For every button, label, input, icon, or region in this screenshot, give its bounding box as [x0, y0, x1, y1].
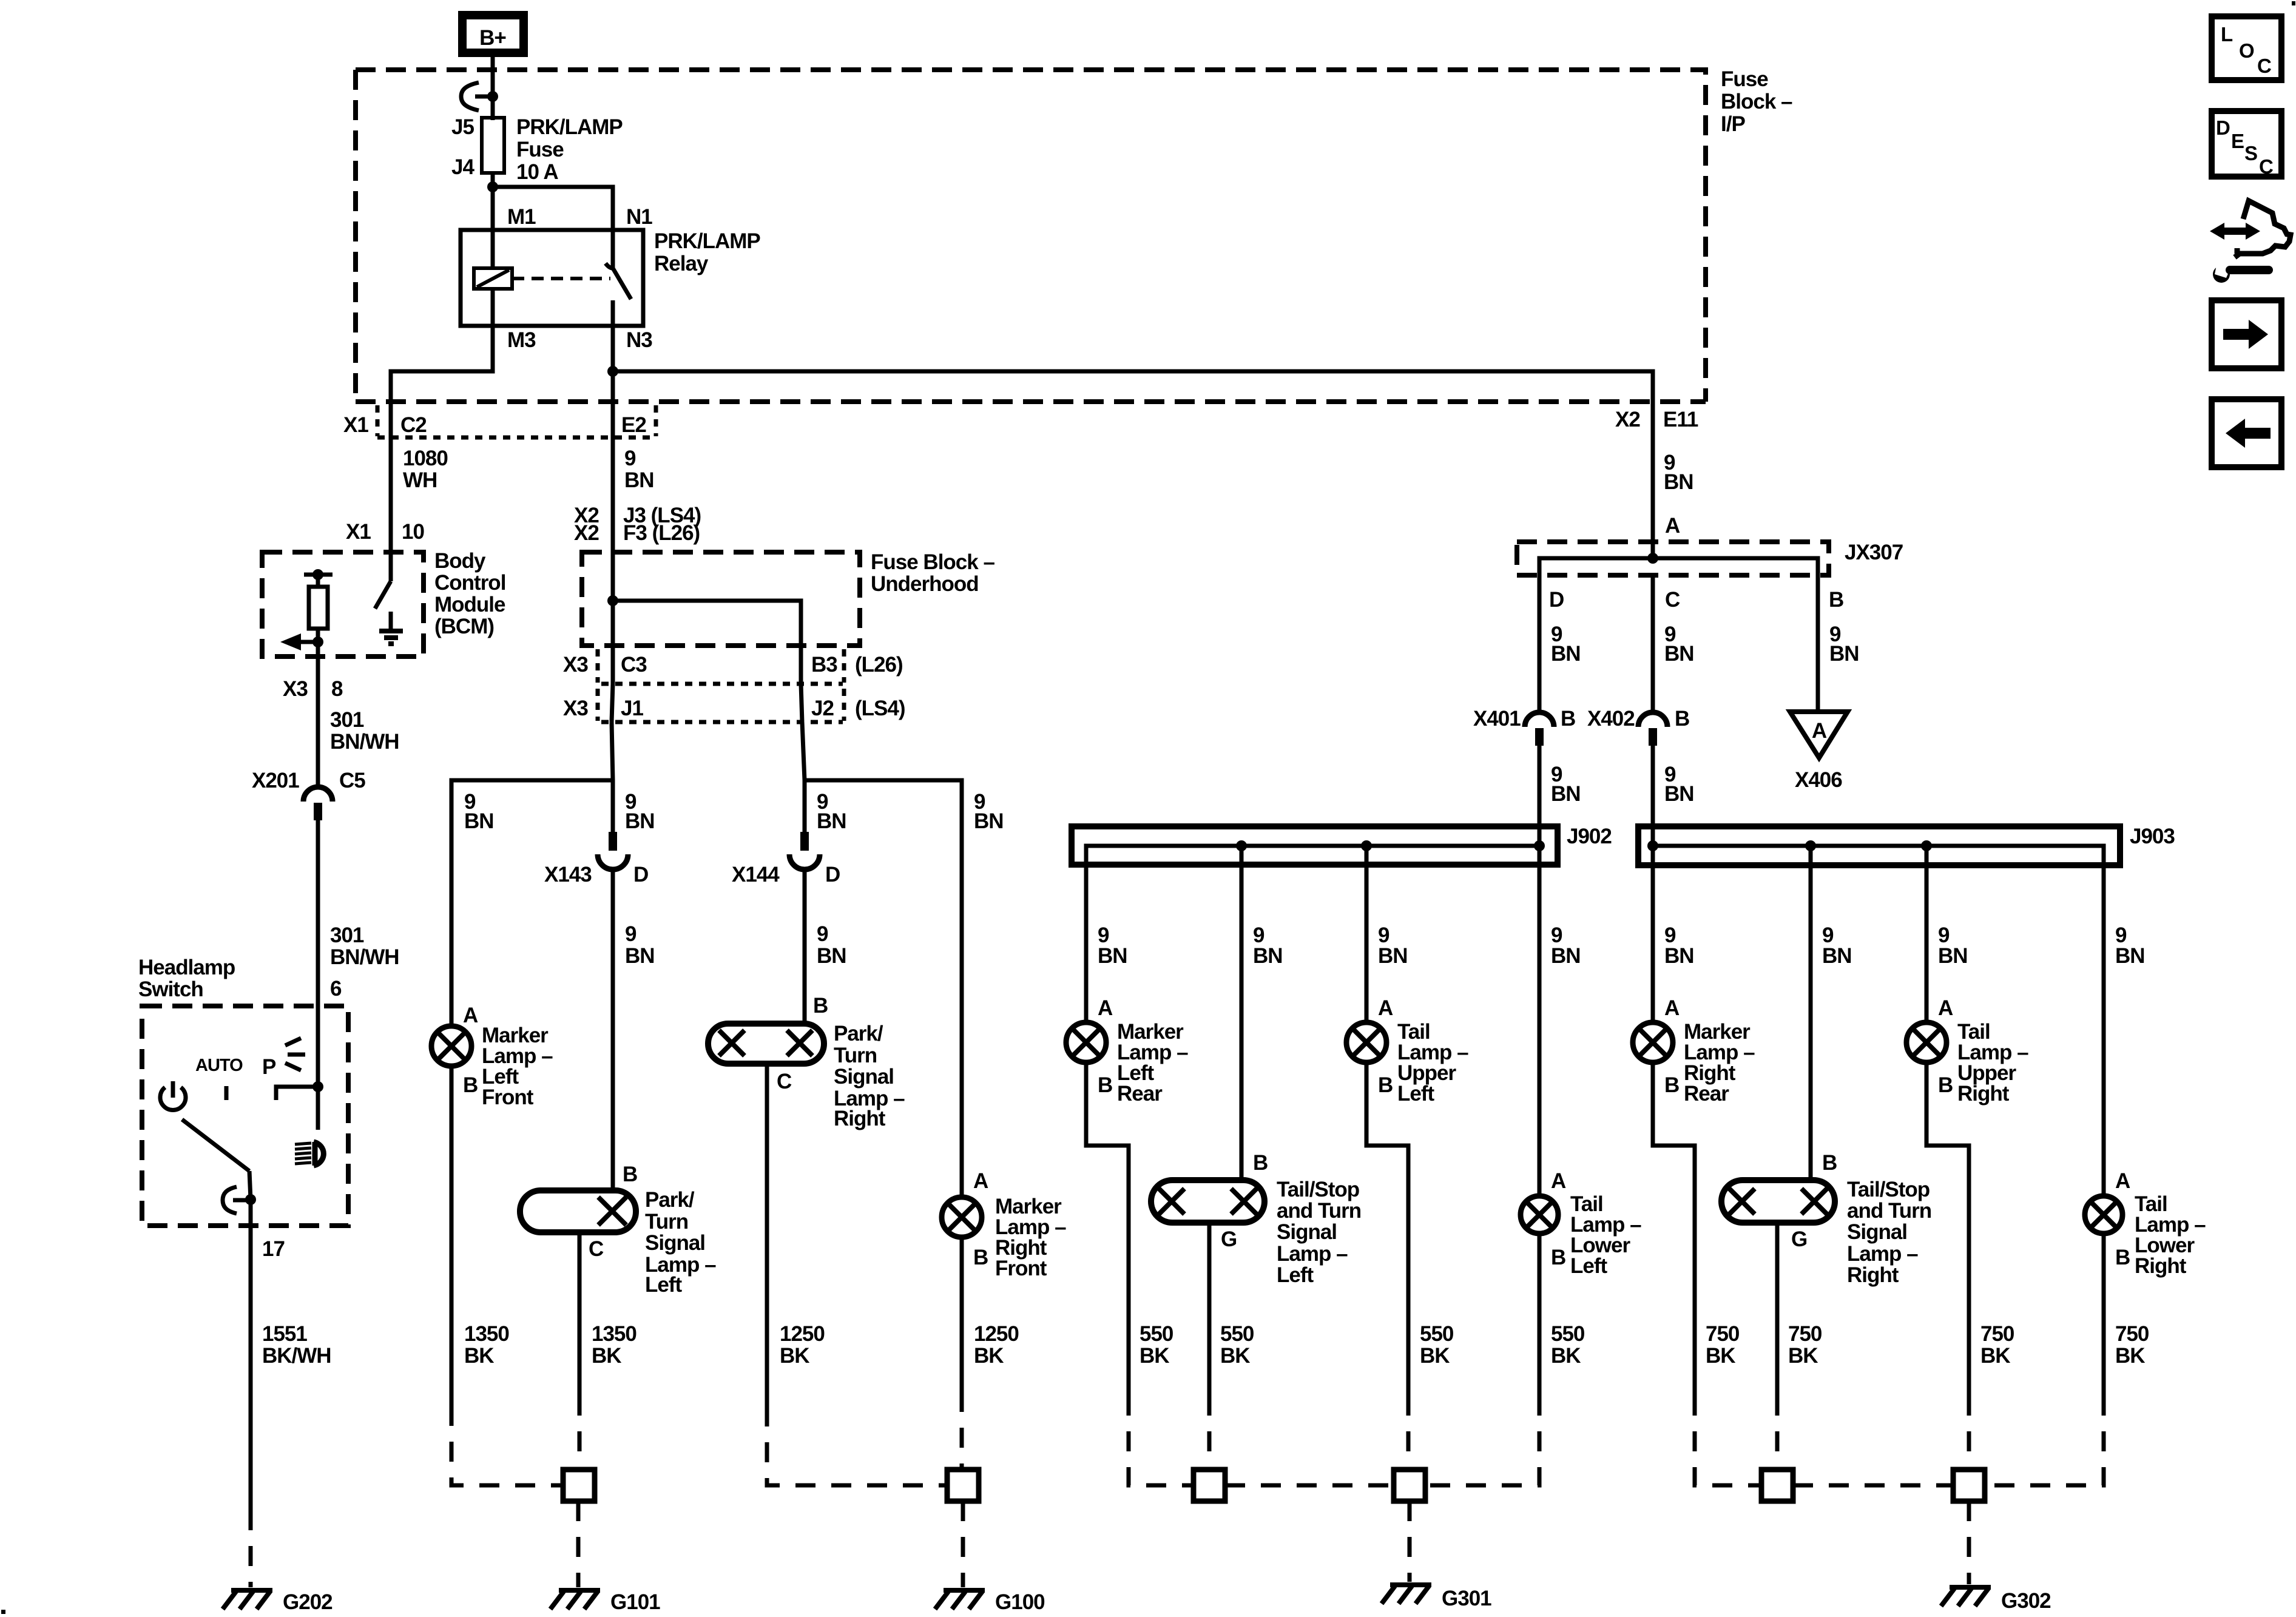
svg-text:BK: BK [1420, 1344, 1450, 1368]
wire label 1250 BK park/turn right [780, 1322, 825, 1368]
svg-text:Underhood: Underhood [871, 572, 979, 596]
pin label J1 [621, 697, 643, 720]
wire J902 feed to tail lamp lower left [1538, 865, 1542, 1196]
dashed wire splice to G100 [961, 1501, 965, 1587]
svg-text:A: A [2115, 1169, 2130, 1193]
svg-text:10: 10 [402, 520, 424, 544]
connector label X2 row F3 [574, 521, 599, 545]
connector label X1 at BCM [346, 520, 371, 544]
pin label F3 (L26) [623, 521, 700, 545]
pin label B tail lower right [2115, 1246, 2130, 1269]
wire 9 BN X144 to park/turn right [803, 869, 807, 1024]
svg-text:6: 6 [330, 977, 342, 1001]
svg-text:C5: C5 [339, 769, 365, 792]
wire label 9 BN at E2 [624, 447, 654, 492]
icon box arrow left [2212, 399, 2281, 467]
svg-text:F3 (L26): F3 (L26) [623, 521, 700, 545]
svg-text:B: B [813, 994, 828, 1018]
svg-text:J4: J4 [451, 155, 474, 179]
headlamp switch blade [182, 1119, 251, 1200]
pin label B park/turn left [623, 1163, 637, 1186]
inline connector X144 D [789, 832, 820, 869]
svg-text:1080: 1080 [403, 447, 448, 470]
label G202 [283, 1590, 333, 1614]
svg-text:and Turn: and Turn [1277, 1199, 1361, 1223]
pin label A tail lower right [2115, 1169, 2130, 1193]
wire label 9 BN left front branch [464, 790, 494, 833]
svg-text:X1: X1 [343, 413, 368, 437]
wire label 550 BK tail lower left [1551, 1322, 1585, 1368]
svg-text:Body: Body [434, 549, 486, 573]
connector label X201 [252, 769, 299, 792]
pin label B tail/stop right [1822, 1151, 1837, 1175]
dashed wire splice to G302 [1967, 1501, 1971, 1584]
wire tail upper right to G302 [1926, 1062, 1969, 1396]
dashed wire splice to G101 [576, 1501, 581, 1587]
icon vehicle outline [2235, 201, 2291, 257]
svg-text:9: 9 [625, 922, 636, 946]
tail/stop and turn signal lamp right [1721, 1180, 1835, 1223]
underhood internal bus [607, 595, 801, 646]
svg-text:G301: G301 [1442, 1587, 1491, 1610]
pin label C5 [339, 769, 365, 792]
ground distribution X406 [1790, 712, 1848, 758]
dashed wire tail lower left to splice [1425, 1396, 1539, 1485]
svg-text:B+: B+ [479, 26, 506, 50]
svg-text:Park/: Park/ [834, 1022, 883, 1045]
wire label 750 BK tail lower right [2115, 1322, 2149, 1368]
svg-text:G100: G100 [995, 1590, 1045, 1614]
dashed wire park/turn left to splice [578, 1396, 582, 1470]
svg-text:C: C [1665, 588, 1680, 612]
svg-text:X2: X2 [1615, 408, 1640, 431]
marker lamp right rear [1633, 1022, 1673, 1062]
svg-text:BN: BN [817, 944, 846, 968]
splice left at G302 [1761, 1470, 1793, 1501]
wire X402 to J903 [1651, 746, 1655, 865]
svg-text:(LS4): (LS4) [855, 697, 905, 720]
wire label 550 BK tail/stop left [1220, 1322, 1254, 1368]
svg-text:BK: BK [1980, 1344, 2010, 1368]
svg-text:A: A [463, 1004, 478, 1027]
svg-text:A: A [1664, 996, 1680, 1020]
pin label 6 [330, 977, 342, 1001]
BCM internal pull-up resistor [304, 569, 333, 657]
pin label B tail/stop left [1253, 1151, 1268, 1175]
wire J903 corner to tail lamp lower right [2102, 865, 2106, 1196]
svg-text:Fuse: Fuse [1721, 67, 1768, 91]
headlamp switch dashed box [142, 1006, 348, 1226]
wire J902 to tail lamp upper left [1365, 846, 1369, 1022]
svg-text:9: 9 [817, 922, 828, 946]
wire label 9 BN X402 [1664, 763, 1694, 806]
svg-text:Turn: Turn [645, 1210, 688, 1234]
svg-text:750: 750 [2115, 1322, 2149, 1346]
svg-text:A: A [1551, 1169, 1566, 1193]
svg-text:X401: X401 [1473, 707, 1521, 731]
splice at G101 [563, 1470, 595, 1501]
svg-text:X2: X2 [574, 521, 599, 545]
dashed wire tail/stop left to splice [1207, 1396, 1212, 1470]
svg-text:1350: 1350 [592, 1322, 636, 1346]
connector label X143 [544, 863, 592, 886]
dashed wire between G302 splices [1793, 1484, 1953, 1488]
wire marker left front to G101 run [450, 1066, 454, 1406]
svg-text:N1: N1 [626, 205, 652, 229]
svg-text:X201: X201 [252, 769, 299, 792]
splice pack J903 [1638, 826, 2120, 865]
pin label D at X144 [825, 863, 840, 886]
label PRK/LAMP Relay [654, 229, 760, 275]
pin label A marker left rear [1098, 996, 1113, 1020]
wire label 9 BN X401 [1551, 763, 1581, 806]
svg-text:301: 301 [330, 923, 364, 947]
svg-text:Fuse Block –: Fuse Block – [871, 550, 994, 574]
label AUTO [195, 1056, 243, 1075]
label G100 [995, 1590, 1045, 1614]
connector label X2 row J3 [574, 504, 599, 527]
wire label 1551 BK/WH [262, 1322, 331, 1368]
pin label A marker left front [463, 1004, 478, 1027]
splice right at G301 [1394, 1470, 1425, 1501]
svg-text:X143: X143 [544, 863, 592, 886]
svg-text:Relay: Relay [654, 252, 709, 275]
label JX307 [1845, 541, 1903, 564]
pin label A at JX307 [1665, 514, 1680, 538]
wire J902 to marker lamp left rear [1084, 865, 1089, 1022]
svg-text:O: O [2239, 39, 2255, 62]
svg-text:D: D [633, 863, 648, 886]
wire JX307 B to X406 [1816, 575, 1820, 712]
wire tail lower left to G301 [1538, 1234, 1542, 1396]
pin label C park/turn right [777, 1070, 792, 1093]
wire park/turn right C to G100 [765, 1064, 769, 1406]
wire relay M3 to X1 C2 [391, 326, 493, 437]
label Marker Lamp - Left Rear [1117, 1020, 1188, 1106]
connector label X2 at E11 [1615, 408, 1640, 431]
pin label B at JX307 [1829, 588, 1843, 612]
pin label D at X143 [633, 863, 648, 886]
svg-text:A: A [1098, 996, 1113, 1020]
svg-text:and Turn: and Turn [1847, 1199, 1931, 1223]
svg-text:BK: BK [1220, 1344, 1250, 1368]
wire 301 BN/WH from X201 to headlamp switch pin 6 [316, 820, 320, 1006]
svg-text:D: D [825, 863, 840, 886]
pin label 17 [262, 1237, 285, 1261]
svg-text:BN: BN [974, 809, 1004, 833]
pin label B at X401 [1561, 707, 1575, 731]
wire tail/stop left G to G301 [1207, 1223, 1212, 1396]
wire 9 BN X143 to park/turn left [611, 869, 615, 1190]
svg-text:B: B [1938, 1073, 1953, 1097]
svg-text:E: E [2231, 130, 2244, 152]
dashed wire to G202 [249, 1510, 253, 1587]
relay actuator dashed link [512, 277, 610, 280]
svg-text:B: B [973, 1246, 988, 1269]
fusible link curl at B+ feed [461, 83, 498, 110]
svg-text:J5: J5 [451, 115, 474, 139]
BCM internal switch from X1-10 [375, 550, 391, 609]
wire label 750 BK tail/stop right [1788, 1322, 1822, 1368]
wire label 1250 BK marker right front [974, 1322, 1019, 1368]
svg-text:BN: BN [1664, 782, 1694, 806]
wire label 9 BN tail upper right [1938, 923, 1968, 968]
ground G100 [935, 1590, 985, 1609]
dashed wire tail lower right to splice [1985, 1396, 2104, 1485]
svg-text:G101: G101 [610, 1590, 660, 1614]
svg-text:A: A [1378, 996, 1393, 1020]
connector label X402 [1587, 707, 1635, 731]
svg-text:BN: BN [1664, 944, 1694, 968]
svg-text:Rear: Rear [1684, 1082, 1729, 1106]
tail lamp upper right [1906, 1022, 1947, 1062]
svg-text:B: B [1098, 1073, 1112, 1097]
svg-text:B: B [1561, 707, 1575, 731]
svg-text:J902: J902 [1567, 825, 1612, 848]
headlamp icon [295, 1142, 323, 1166]
pin label A tail upper right [1938, 996, 1953, 1020]
svg-text:G202: G202 [283, 1590, 333, 1614]
wire label 1350 BK marker left front [464, 1322, 509, 1368]
svg-text:D: D [1549, 588, 1564, 612]
svg-text:BN: BN [1664, 470, 1693, 494]
svg-text:BN: BN [1378, 944, 1408, 968]
marker lamp right front [942, 1197, 982, 1237]
svg-text:E2: E2 [621, 413, 646, 437]
label J903 [2130, 825, 2175, 848]
svg-text:Left: Left [1277, 1263, 1314, 1287]
pin label 10 [402, 520, 424, 544]
relay PRK/LAMP box [461, 230, 643, 326]
svg-text:BN: BN [625, 809, 655, 833]
wire J2 to X144 with branch to right front marker [802, 722, 962, 1197]
pin label B marker left rear [1098, 1073, 1112, 1097]
svg-text:BN: BN [1822, 944, 1852, 968]
inline connector X143 D [598, 832, 628, 869]
wire 9 BN from E11 to JX307 [1651, 402, 1655, 558]
svg-text:C2: C2 [400, 413, 427, 437]
wire label 9 BN at E11 [1664, 451, 1693, 494]
svg-text:C: C [589, 1237, 604, 1261]
svg-text:X3: X3 [563, 697, 588, 720]
wire label 301 BN/WH lower [330, 923, 399, 969]
svg-text:8: 8 [331, 677, 343, 701]
icon box DESC [2212, 111, 2281, 178]
inline connector X401 B [1525, 712, 1554, 746]
icon box LOC [2212, 16, 2281, 80]
fuse block I/P dashed box [356, 70, 1706, 402]
connector row X1 C2 E2 dotted separator [377, 405, 656, 437]
wire JX307 D to X401 [1538, 575, 1542, 713]
svg-text:Turn: Turn [834, 1044, 877, 1067]
connector label X401 [1473, 707, 1521, 731]
svg-text:750: 750 [1706, 1322, 1740, 1346]
svg-text:750: 750 [1980, 1322, 2014, 1346]
label PRK/LAMP Fuse 10 A [516, 115, 623, 184]
svg-text:BN: BN [2115, 944, 2145, 968]
pin label B3 [811, 653, 837, 677]
marker lamp left rear [1066, 1022, 1106, 1062]
relay coil [474, 230, 512, 326]
wire label 301 BN/WH [330, 708, 399, 754]
svg-text:Signal: Signal [645, 1231, 705, 1255]
svg-text:1551: 1551 [262, 1322, 307, 1346]
tail/stop and turn signal lamp left [1151, 1180, 1264, 1223]
pin label A tail lower left [1551, 1169, 1566, 1193]
wire tail lower right to G302 [2102, 1234, 2106, 1396]
pin label G tail/stop left [1221, 1227, 1237, 1251]
svg-text:B: B [463, 1073, 478, 1097]
inline connector X402 B [1638, 712, 1667, 746]
svg-text:X3: X3 [563, 653, 588, 677]
BCM internal output arrow [280, 633, 318, 650]
connector label X3 row J1 [563, 697, 588, 720]
svg-text:C3: C3 [621, 653, 647, 677]
label Park/Turn Signal Lamp - Left [645, 1188, 716, 1297]
svg-text:1250: 1250 [780, 1322, 825, 1346]
svg-text:B: B [1822, 1151, 1837, 1175]
wire label 550 BK marker left rear [1140, 1322, 1173, 1368]
svg-text:BK: BK [974, 1344, 1004, 1368]
svg-text:BK: BK [2115, 1344, 2145, 1368]
wire 301 BN/WH from BCM to X201 [316, 657, 320, 787]
svg-text:D: D [2216, 116, 2230, 139]
pin label J4 [451, 155, 474, 179]
svg-text:BK/WH: BK/WH [262, 1344, 331, 1368]
svg-text:BK: BK [1706, 1344, 1735, 1368]
svg-text:BN: BN [1829, 642, 1859, 666]
svg-text:BN: BN [1551, 642, 1581, 666]
svg-text:BN: BN [625, 944, 655, 968]
svg-text:L: L [2221, 23, 2233, 46]
label Park/Turn Signal Lamp - Right [834, 1022, 905, 1130]
label Tail Lamp - Upper Right [1957, 1020, 2028, 1106]
svg-text:(L26): (L26) [855, 653, 903, 677]
park lamps P icon [262, 1038, 305, 1079]
wire JX307 C to X402 [1651, 575, 1655, 713]
wire label 9 BN above X143 [625, 790, 655, 833]
svg-text:X402: X402 [1587, 707, 1635, 731]
svg-text:JX307: JX307 [1845, 541, 1903, 564]
pin label B marker left front [463, 1073, 478, 1097]
svg-text:X144: X144 [732, 863, 780, 886]
svg-text:Park/: Park/ [645, 1188, 695, 1212]
ground G202 [223, 1590, 272, 1609]
wire label 9 BN right front branch [974, 790, 1004, 833]
wire tail/stop right G to G302 [1775, 1223, 1780, 1396]
svg-text:A: A [973, 1169, 988, 1193]
svg-text:X1: X1 [346, 520, 371, 544]
dashed wire park/turn right to splice [767, 1406, 947, 1485]
pin label A marker right front [973, 1169, 988, 1193]
svg-text:BN: BN [817, 809, 846, 833]
connector label X144 [732, 863, 780, 886]
svg-text:Right: Right [1847, 1263, 1899, 1287]
wire fuse node to relay N1 [493, 187, 613, 230]
connector label X3 at BCM [283, 677, 308, 701]
park/turn signal lamp left [520, 1190, 636, 1232]
svg-text:Right: Right [834, 1107, 886, 1130]
wire marker right front to G100 [960, 1237, 964, 1392]
svg-text:BN: BN [464, 809, 494, 833]
pin label C park/turn left [589, 1237, 604, 1261]
svg-text:N3: N3 [626, 328, 652, 352]
svg-text:Signal: Signal [1277, 1220, 1337, 1244]
pin label J3 (LS4) [623, 504, 701, 527]
svg-text:Tail/Stop: Tail/Stop [1847, 1178, 1930, 1201]
pin label B tail upper left [1378, 1073, 1393, 1097]
wire label 9 BN tail upper left [1378, 923, 1408, 968]
svg-text:M3: M3 [507, 328, 536, 352]
wire label 550 BK tail upper left [1420, 1322, 1454, 1368]
svg-text:BN: BN [1664, 642, 1694, 666]
svg-text:I/P: I/P [1721, 112, 1745, 136]
svg-text:BK: BK [1788, 1344, 1818, 1368]
svg-text:BN: BN [624, 468, 654, 492]
page artifact dot top right [2292, 1, 2295, 5]
svg-text:C: C [777, 1070, 792, 1093]
svg-text:Left: Left [645, 1273, 683, 1297]
pin label G tail/stop right [1791, 1227, 1807, 1251]
pin label C2 [400, 413, 427, 437]
svg-text:BN/WH: BN/WH [330, 945, 399, 969]
tail lamp upper left [1346, 1022, 1386, 1062]
splice left at G301 [1194, 1470, 1225, 1501]
svg-text:BK: BK [1551, 1344, 1581, 1368]
label Tail Lamp - Lower Right [2135, 1192, 2206, 1278]
splice at G100 [947, 1470, 979, 1501]
marker lamp left front [431, 1026, 471, 1066]
wire 1080 WH from C2 to BCM X1-10 [389, 437, 393, 550]
pin label C at JX307 [1665, 588, 1680, 612]
svg-text:Control: Control [434, 571, 505, 595]
icon box arrow right [2212, 300, 2281, 368]
label Headlamp Switch [138, 956, 235, 1001]
ground G301 [1382, 1585, 1431, 1604]
label Body Control Module (BCM) [434, 549, 505, 638]
pin label B marker right rear [1664, 1073, 1679, 1097]
svg-text:9: 9 [624, 447, 636, 470]
pin label 8 [331, 677, 343, 701]
wire marker left rear to G301 [1086, 1062, 1129, 1396]
connector row C3 B3 [598, 649, 844, 684]
wire label 9 BN tail/stop left [1253, 923, 1283, 968]
svg-text:Tail/Stop: Tail/Stop [1277, 1178, 1359, 1201]
pin label A tail upper left [1378, 996, 1393, 1020]
svg-text:550: 550 [1551, 1322, 1585, 1346]
svg-text:G: G [1791, 1227, 1807, 1251]
fuse PRK/LAMP 10A [482, 117, 504, 173]
wire label 9 BN tail lower right [2115, 923, 2145, 968]
wire J903 to tail/stop right B [1809, 846, 1813, 1180]
svg-text:X406: X406 [1795, 768, 1842, 792]
svg-text:B3: B3 [811, 653, 837, 677]
svg-text:550: 550 [1140, 1322, 1173, 1346]
icon wrench [2213, 262, 2273, 283]
svg-text:Front: Front [995, 1257, 1047, 1280]
splice right at G302 [1953, 1470, 1985, 1501]
fuse block underhood dashed box [582, 552, 860, 646]
tail lamp lower left [1521, 1196, 1558, 1234]
label G101 [610, 1590, 660, 1614]
relay switch contact [606, 230, 631, 326]
wire label 9 BN below X144 [817, 922, 846, 968]
label G302 [2001, 1589, 2051, 1613]
tail lamp lower right [2085, 1196, 2122, 1234]
svg-text:C: C [2259, 155, 2274, 178]
pin label M3 [507, 328, 536, 352]
svg-text:PRK/LAMP: PRK/LAMP [654, 229, 760, 253]
